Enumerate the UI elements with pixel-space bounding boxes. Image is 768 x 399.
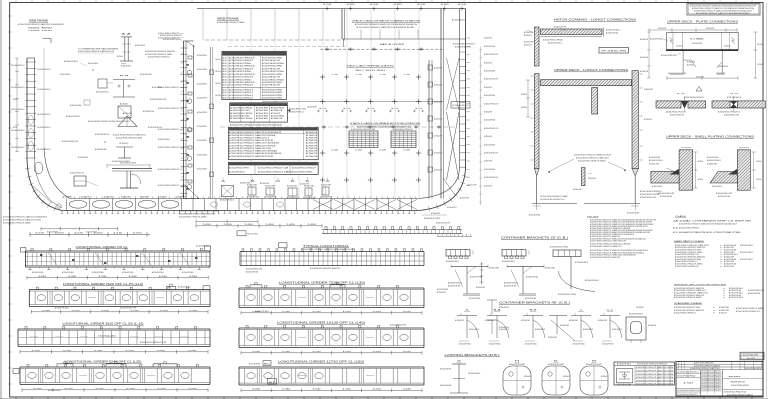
upper deck fig right column taper — [632, 169, 638, 176]
svg-text:A1 250x12 FB 300 L2 HP320x1: A1 250x12 FB 300 L2 HP320x1 — [230, 117, 253, 120]
svg-text:1.50: 1.50 — [331, 74, 338, 76]
svg-text:A1 25: A1 25 — [223, 96, 227, 99]
svg-text:A1 250x12 FB 300 L2 HP320x12 P: A1 250x12 FB 300 L2 HP320x12 PL 14 AH32 … — [229, 155, 274, 158]
svg-text:4.240: 4.240 — [159, 276, 167, 278]
svg-text:A1 250x12 FB 300 L2: A1 250x12 FB 300 L2 — [255, 310, 269, 313]
hold grid vertical lines upper — [202, 9, 204, 40]
title block outer — [676, 361, 763, 396]
svg-text:4.50: 4.50 — [370, 4, 378, 6]
double bottom diagonal bracing — [313, 200, 333, 210]
svg-text:MIDSHIP SECTION: MIDSHIP SECTION — [731, 382, 746, 384]
pedestal detail — [112, 168, 152, 170]
title block top rows — [676, 363, 763, 365]
svg-text:A1 250x12 FB 300 L2: A1 250x12 FB 300 L2 — [729, 296, 743, 299]
svg-text:4.240: 4.240 — [373, 389, 381, 391]
svg-text:A1 250x12 FB 300: A1 250x12 FB 300 — [554, 26, 566, 29]
svg-text:VIR 300-1: VIR 300-1 — [729, 376, 742, 378]
svg-text:4.240: 4.240 — [32, 350, 40, 352]
port inner frame edge — [43, 48, 45, 148]
svg-text:A1 250x12 FB 300 L2 HP320x12 P: A1 250x12 FB 300 L2 HP320x12 PL 14 AH32 … — [217, 21, 245, 24]
girder CL blobs — [40, 254, 42, 256]
starboard side frame ticks — [460, 51, 467, 53]
hatch coaming right wall — [440, 9, 442, 199]
stack load table 2 — [230, 103, 288, 122]
hatch top line right — [342, 38, 466, 40]
svg-text:A1 250x12 FB 300: A1 250x12 FB 300 — [627, 212, 639, 215]
svg-text:A1 250x12 FB 300 L2 HP3: A1 250x12 FB 300 L2 HP3 — [640, 196, 656, 199]
svg-text:MAIN PARTICULARS: MAIN PARTICULARS — [674, 240, 705, 243]
svg-text:A1 250x12 FB 300 L2: A1 250x12 FB 300 L2 — [707, 159, 721, 162]
svg-text:A1 250x12 FB 300 L2: A1 250x12 FB 300 L2 — [12, 64, 25, 67]
svg-text:A1 250x12 FB 300 L2 HP320: A1 250x12 FB 300 L2 HP320 — [292, 170, 313, 173]
svg-text:A1 250x12 FB 3: A1 250x12 FB 3 — [719, 306, 729, 309]
svg-text:A1 250x12 FB 300 L2 HP320x: A1 250x12 FB 300 L2 HP320x — [550, 246, 568, 249]
port web oval hole — [34, 162, 43, 174]
svg-text:A1 250x12 FB 300 L2: A1 250x12 FB 300 L2 — [649, 159, 663, 162]
svg-text:A1 250x12 FB 300 L2 HP: A1 250x12 FB 300 L2 HP — [262, 67, 281, 70]
girder 2620 PS end bracket — [202, 286, 204, 290]
stack load table 4 — [228, 162, 318, 174]
svg-text:A1 250x12 FB 300 L2 HP3: A1 250x12 FB 300 L2 HP3 — [658, 192, 674, 195]
svg-text:A1 250x12 FB 300 L2 HP3: A1 250x12 FB 300 L2 HP3 — [230, 109, 250, 112]
svg-text:A1 250x12 FB 300 L2 HP320x12 P: A1 250x12 FB 300 L2 HP320x12 PL 14 AH32 … — [576, 157, 609, 160]
starboard shell outboard labels — [467, 37, 471, 39]
sheet bottom scan edge strip — [0, 398, 768, 399]
bulkhead circles — [187, 70, 192, 75]
svg-text:4.240: 4.240 — [94, 350, 102, 352]
bulkhead bottom bracket — [184, 184, 200, 199]
detail figures under tables — [221, 186, 233, 197]
svg-text:A1 250x12 FB 300 L2 HP320x12 P: A1 250x12 FB 300 L2 HP320x12 PL 14 AH32 … — [179, 216, 207, 219]
svg-text:A1 250x12 FB 300: A1 250x12 FB 300 — [748, 292, 760, 295]
svg-text:4.240: 4.240 — [98, 276, 106, 278]
svg-text:4.240: 4.240 — [130, 310, 138, 312]
svg-text:A1 250x12 FB 300 L2 HP320x12 P: A1 250x12 FB 300 L2 HP320x12 PL — [229, 57, 256, 60]
svg-text:1.50: 1.50 — [355, 150, 362, 152]
upper deck dashed line left — [205, 39, 345, 41]
upper deck fig small marks — [531, 75, 534, 77]
svg-text:A1 250x12 FB 300 L2: A1 250x12 FB 300 L2 — [12, 86, 25, 89]
svg-text:UPPER DECK - SHELL PLATING C: UPPER DECK - SHELL PLATING CONNECTIONS — [666, 135, 754, 139]
cb40 extra figure — [549, 315, 567, 317]
svg-text:4.240: 4.240 — [158, 388, 166, 390]
svg-text:4.240: 4.240 — [189, 388, 197, 390]
svg-text:A1 250x12 FB 300 L2: A1 250x12 FB 300 L2 — [448, 282, 462, 285]
svg-text:A1 250x12 FB 300 L2 HP320x12 P: A1 250x12 FB 300 L2 HP320x12 PL 14 AH32 … — [736, 307, 764, 310]
lashing oval figures — [503, 366, 531, 395]
svg-text:A1 250x12 FB 300 L2 HP320x12 P: A1 250x12 FB 300 L2 HP320x12 PL — [674, 312, 696, 315]
container stack isometric 2 — [391, 131, 416, 148]
svg-text:A1 250x12 FB: A1 250x12 FB — [271, 109, 283, 112]
title block left cells — [676, 373, 701, 375]
container position crosses — [320, 76, 325, 78]
svg-text:A1 250x12 FB 300 L2 HP320x1: A1 250x12 FB 300 L2 HP320x1 — [229, 62, 252, 65]
weld detail 1 — [656, 101, 681, 108]
plate conn left dim — [648, 32, 650, 78]
svg-text:A1 250x12 FB 300 L2 HP320x12 P: A1 250x12 FB 300 L2 HP320x12 P — [229, 91, 254, 94]
svg-text:1.50: 1.50 — [403, 74, 410, 76]
svg-text:4-4: 4-4 — [391, 108, 399, 110]
svg-text:4.240: 4.240 — [403, 311, 411, 313]
double bottom lightening holes — [69, 200, 86, 208]
plate conn right dim — [754, 32, 756, 78]
upper deck fig base ticks — [533, 205, 541, 207]
svg-text:A1 250x12 FB 300 L2 HP: A1 250x12 FB 300 L2 HP — [453, 104, 470, 107]
svg-text:TYPICAL LONGITUDINAL: TYPICAL LONGITUDINAL — [303, 245, 350, 248]
port shell inner swirls — [28, 116, 33, 125]
svg-text:A1 250x12 FB 300 L2: A1 250x12 FB 300 L2 — [12, 108, 25, 111]
plate conn thick chord — [666, 49, 738, 51]
svg-text:A1 250x12 FB 300 L2 HP320x12 P: A1 250x12 FB 300 L2 HP320x12 PL 14 AH32 … — [637, 363, 667, 366]
svg-text:A1 250x12 FB 300 L2 HP320: A1 250x12 FB 300 L2 HP320 — [262, 65, 283, 68]
svg-text:4.240: 4.240 — [38, 276, 46, 278]
hatch cover dashed line — [320, 48, 443, 50]
svg-text:A1 250x12 FB: A1 250x12 FB — [306, 155, 318, 158]
svg-text:A1 250x12 FB 300 L2 HP320x12 P: A1 250x12 FB 300 L2 HP320x12 PL 14 AH3 — [116, 136, 142, 139]
svg-text:4.270: 4.270 — [55, 233, 64, 235]
title block middle cells — [701, 371, 723, 373]
svg-text:A1 250x12 FB 3: A1 250x12 FB 3 — [240, 182, 250, 185]
cb40 bracket figures — [457, 315, 477, 317]
svg-text:4.240: 4.240 — [282, 389, 290, 391]
svg-text:A1 250x12 FB: A1 250x12 FB — [306, 142, 318, 145]
svg-text:4.240: 4.240 — [403, 351, 411, 353]
port hatch side girder — [209, 47, 211, 199]
svg-text:4.240: 4.240 — [373, 311, 381, 313]
svg-text:4.240: 4.240 — [343, 389, 351, 391]
svg-text:LASHING BRACKETS (D.B.): LASHING BRACKETS (D.B.) — [445, 354, 500, 357]
svg-text:4.240: 4.240 — [42, 310, 50, 312]
svg-text:PL.2 PANEL: PL.2 PANEL — [690, 38, 704, 41]
svg-text:2.430: 2.430 — [266, 224, 274, 226]
svg-text:A1 250x12 FB: A1 250x12 FB — [306, 144, 318, 147]
svg-text:A1 250x12 FB 30: A1 250x12 FB 30 — [256, 115, 269, 118]
upper deck fig left column — [535, 74, 540, 169]
svg-text:A1 250x12 FB 300 L2 HP320x12 P: A1 250x12 FB 300 L2 HP320x12 PL 14 AH32 … — [357, 26, 415, 29]
svg-text:A1 250x12 FB 30: A1 250x12 FB 30 — [256, 112, 269, 115]
svg-text:A1 250x12 FB 3: A1 250x12 FB 3 — [649, 162, 659, 165]
svg-text:A1 25: A1 25 — [223, 89, 227, 92]
upper dimension row under bilge — [41, 228, 118, 230]
port shell frame ticks — [26, 61, 37, 63]
svg-text:A1 250x12 FB 300: A1 250x12 FB 300 — [448, 284, 460, 287]
strip label left — [237, 231, 246, 236]
longitudinal bulkhead — [183, 41, 185, 199]
dimension row under bilge left — [30, 234, 150, 236]
svg-text:HATCH COAMING - LONGIT CONNE: HATCH COAMING - LONGIT CONNECTIONS — [554, 18, 636, 22]
svg-text:A1 250x12: A1 250x12 — [120, 103, 128, 106]
svg-text:A1 250x12 FB 300 L2 HP320x12 P: A1 250x12 FB 300 L2 HP320x12 PL 14 AH32 … — [229, 152, 282, 155]
svg-text:A1 250x12 FB 300 L2 HP320x12 P: A1 250x12 FB 300 L2 HP320x12 PL 14 AH32 … — [357, 126, 411, 129]
svg-text:A1 250x12 FB 300 L2: A1 250x12 FB 300 L2 — [220, 199, 234, 202]
svg-text:A1 250x12 FB 300 L2 HP320: A1 250x12 FB 300 L2 HP320 — [262, 91, 283, 94]
svg-text:A1 250x12 FB 300 L2 HP320x12 P: A1 250x12 FB 300 L2 HP320x12 P — [229, 94, 254, 97]
svg-text:4.240: 4.240 — [157, 350, 165, 352]
svg-text:4.240: 4.240 — [68, 276, 76, 278]
svg-text:A1 250x12 FB 300 L2 HP320x12 P: A1 250x12 FB 300 L2 HP320x12 PL 14 AH32 … — [229, 142, 280, 145]
svg-text:A1 250x12 FB 300 L2 HP320x12 P: A1 250x12 FB 300 L2 HP320x12 PL 14 AH32 … — [145, 50, 175, 53]
svg-text:A1 250x12 FB: A1 250x12 FB — [306, 150, 318, 153]
svg-text:A1 25: A1 25 — [223, 94, 227, 97]
svg-text:A1 250x12 FB 300 L2 HP320x12 P: A1 250x12 FB 300 L2 HP320x12 PL 14 AH32 … — [310, 267, 340, 270]
svg-text:A1 250x12 FB 300 L2 HP320x12 P: A1 250x12 FB 300 L2 HP320x12 P — [229, 84, 254, 87]
upper deck fig baseline — [532, 203, 577, 205]
starboard dim string line — [480, 47, 482, 205]
svg-text:A1 250x12 FB 300 L2: A1 250x12 FB 300 L2 — [12, 146, 25, 149]
svg-text:A1 250x12 FB: A1 250x12 FB — [260, 182, 270, 185]
hold grid vertical lines — [250, 40, 252, 199]
svg-text:A1 250x12 FB 300 L2 HP320x12 P: A1 250x12 FB 300 L2 HP320x12 P — [229, 59, 254, 62]
weld detail 2 — [712, 101, 730, 108]
svg-text:A1 250x12 FB 300 L2 HP320x12 P: A1 250x12 FB 300 L2 HP320x12 PL 14 AH32 … — [229, 139, 274, 142]
table grid — [634, 365, 636, 385]
svg-text:2.430: 2.430 — [245, 224, 253, 226]
svg-text:A1 250x12 FB: A1 250x12 FB — [271, 117, 283, 120]
svg-text:A1 250x12 FB 300 L2 HP320x12 P: A1 250x12 FB 300 L2 HP320x12 PL 14 AH32 … — [590, 239, 626, 242]
svg-text:A1 250x12 FB 300 L2 HP320x12 P: A1 250x12 FB 300 L2 HP320x12 PL 14 AH32 … — [674, 296, 702, 299]
svg-text:A1 250x12 FB 300 L2 HP320x12 P: A1 250x12 FB 300 L2 HP320x12 PL 14 AH32 … — [578, 160, 606, 163]
hold horizontal dashed line mid — [220, 126, 455, 128]
plate conn deck band — [667, 33, 739, 50]
girder CL top sockets — [31, 249, 33, 251]
svg-text:A1 250x12 FB 300 L2 HP320x12 P: A1 250x12 FB 300 L2 HP320x12 PL — [148, 56, 170, 59]
svg-text:A1 250x12 FB 300 L2 HP3: A1 250x12 FB 300 L2 HP3 — [62, 140, 78, 143]
bulkhead frame ticks — [181, 47, 188, 49]
svg-text:A1 250x12 FB 300 L2: A1 250x12 FB 300 L2 — [446, 260, 459, 263]
svg-text:4.240: 4.240 — [101, 310, 109, 312]
svg-text:A1 250x12 FB 300 L2 HP320: A1 250x12 FB 300 L2 HP320 — [262, 89, 283, 92]
lightening holes table — [614, 362, 674, 385]
svg-text:A1 250x12 FB 300 L2 HP320x12 P: A1 250x12 FB 300 L2 HP320x12 PL 14 AH32 … — [229, 136, 269, 139]
svg-text:A1 250x12 FB 300 L2 HP3: A1 250x12 FB 300 L2 HP3 — [716, 192, 732, 195]
svg-text:A1 250x12 FB 30: A1 250x12 FB 30 — [256, 117, 269, 120]
svg-text:LONGITUDINAL GIRDER 2620 OFF C: LONGITUDINAL GIRDER 2620 OFF CL PS (L10) — [63, 283, 143, 286]
svg-text:A1 250x12 FB 300 L2 HP320x12 P: A1 250x12 FB 300 L2 HP320x12 P — [158, 146, 180, 149]
svg-text:STACK LOADS ON HATCH COAMING (: STACK LOADS ON HATCH COAMING (STATION) — [352, 20, 420, 23]
svg-text:4.50: 4.50 — [347, 4, 355, 6]
bottom shell longitudinal stubs — [61, 211, 63, 214]
svg-text:A1 250x12 FB 300 L2 HP320x1: A1 250x12 FB 300 L2 HP320x1 — [262, 70, 285, 73]
svg-text:4.240: 4.240 — [282, 311, 290, 313]
svg-text:A1 250x12 FB 300 L2 HP3: A1 250x12 FB 300 L2 HP3 — [390, 323, 406, 326]
svg-text:A1 250x12 FB 300 L2 HP320x12: A1 250x12 FB 300 L2 HP320x12 — [679, 227, 699, 230]
svg-text:A1 250x12 FB 300 L2: A1 250x12 FB 300 L2 — [229, 170, 246, 173]
svg-text:A1 250x12 FB 300 L2 HP320x1: A1 250x12 FB 300 L2 HP320x1 — [230, 107, 253, 110]
svg-text:A1 250x12 FB 300 L2 HP320x12 P: A1 250x12 FB 300 L2 HP320x12 P — [158, 168, 180, 171]
svg-text:30 / 30 0 200: 30 / 30 0 200 — [355, 70, 385, 72]
svg-text:A1 250x12 FB 300 L2 HP320x12 P: A1 250x12 FB 300 L2 HP320x12 PL 14 AH32 — [145, 53, 172, 56]
svg-text:A1 250x12 FB 300 L2 HP320x12 P: A1 250x12 FB 300 L2 HP320x12 PL 14 AH32 … — [355, 23, 417, 26]
svg-text:A1 250x12 FB 300 L2 HP320x12 P: A1 250x12 FB 300 L2 HP320x12 PL — [453, 43, 475, 46]
svg-text:A1 250x12 FB 300 L2 HP320x12: A1 250x12 FB 300 L2 HP320x12 — [543, 39, 563, 42]
svg-text:A1 250x12 FB 300 L2: A1 250x12 FB 300 L2 — [48, 389, 61, 392]
svg-text:A1 250x12 FB: A1 250x12 FB — [308, 106, 318, 109]
svg-text:4.270: 4.270 — [94, 233, 103, 235]
svg-text:A1 250x12 FB 300 L2: A1 250x12 FB 300 L2 — [585, 279, 599, 282]
section C-C detail — [118, 106, 131, 118]
port curve radial ticks — [25, 167, 30, 170]
svg-text:A1 250x12 FB 300 L2 HP3: A1 250x12 FB 300 L2 HP3 — [289, 108, 306, 111]
upper deck fig mid post — [592, 88, 598, 115]
svg-text:A1 250x12 FB 300 L2 HP320x1: A1 250x12 FB 300 L2 HP320x1 — [229, 78, 252, 81]
svg-text:A1 250x12 FB 300 L2 HP320x12 P: A1 250x12 FB 300 L2 HP320x12 PL — [88, 120, 110, 123]
upper deck fig right column — [632, 71, 638, 169]
hatch coaming hanger ticks — [360, 30, 362, 40]
svg-text:A1 250x12 FB 300: A1 250x12 FB 300 — [529, 214, 540, 217]
sheet right edge line — [766, 3, 768, 397]
small tick pair row — [317, 110, 320, 112]
svg-text:A1 250x12 FB 300 L2 HP320x12 P: A1 250x12 FB 300 L2 HP320x12 PL — [229, 81, 256, 84]
small box detail left — [74, 176, 86, 186]
svg-text:4.240: 4.240 — [189, 310, 197, 312]
svg-text:A1 250x12 FB 300 L2: A1 250x12 FB 300 L2 — [629, 313, 643, 316]
svg-text:A1 250x12 FB 300 L2 HP320: A1 250x12 FB 300 L2 HP320 — [262, 57, 283, 60]
svg-text:A1 25: A1 25 — [223, 59, 227, 62]
svg-text:4-4: 4-4 — [415, 108, 423, 110]
svg-text:A1 250x12 FB 300 L2 HP320x12 P: A1 250x12 FB 300 L2 HP320x12 PL 14 AH32 … — [590, 245, 622, 248]
svg-text:A1 250x12 FB 300 L2 HP320: A1 250x12 FB 300 L2 HP320 — [262, 96, 283, 99]
svg-text:A1 250x12 FB 300 L2: A1 250x12 FB 300 L2 — [606, 29, 620, 32]
svg-text:4.240: 4.240 — [96, 388, 104, 390]
starboard side cross bracing — [447, 58, 460, 110]
svg-text:A1 250x12 FB 300 L2 HP320x12 P: A1 250x12 FB 300 L2 HP320x12 PL — [229, 65, 256, 68]
hatch coaming fig beam — [541, 29, 603, 35]
svg-text:A1 250x12 FB 30: A1 250x12 FB 30 — [256, 107, 269, 110]
svg-text:A1 250x12 F: A1 250x12 F — [719, 312, 727, 315]
svg-text:4.270: 4.270 — [113, 233, 122, 235]
svg-text:A1 250x12 FB 300: A1 250x12 FB 300 — [469, 297, 480, 300]
starboard drain hole label — [451, 102, 470, 108]
svg-text:A1 250x12 FB: A1 250x12 FB — [306, 136, 318, 139]
svg-text:A1 250x12 FB 300 L2 HP320x12 P: A1 250x12 FB 300 L2 HP320x12 PL 14 — [736, 310, 760, 313]
svg-text:A1 250x12 FB 300: A1 250x12 FB 300 — [271, 107, 285, 110]
double bottom small holes mid — [211, 202, 218, 207]
svg-text:A1 250x12 FB 300 L2 HP: A1 250x12 FB 300 L2 HP — [661, 54, 677, 57]
hatch coaming left wall — [341, 9, 343, 39]
svg-text:A1 250: A1 250 — [673, 227, 678, 230]
svg-text:2.430: 2.430 — [203, 224, 211, 226]
cb40 socket box detail — [626, 317, 646, 340]
svg-text:A1 250x12 FB: A1 250x12 FB — [306, 134, 318, 137]
svg-text:A1 250x12 FB: A1 250x12 FB — [300, 183, 310, 186]
svg-text:A1 250x12 FB 300 L2: A1 250x12 FB 300 L2 — [502, 260, 515, 263]
svg-text:A1 250x12 FB 300 L2 HP320x12 P: A1 250x12 FB 300 L2 HP320x12 PL 14 AH32 … — [3, 222, 31, 225]
bulkhead stiffener blobs — [188, 56, 192, 59]
svg-text:A1 250x12 FB 300 L2 HP320: A1 250x12 FB 300 L2 HP320 — [229, 166, 250, 169]
svg-text:LONGITUDINAL GIRDER 2620 OFF C: LONGITUDINAL GIRDER 2620 OFF CL SS (L-10… — [63, 322, 144, 325]
svg-text:A1 250x12 FB 300 L2 HP320x12 P: A1 250x12 FB 300 L2 HP320x12 PL 14 AH32 … — [674, 309, 704, 312]
svg-text:4.240: 4.240 — [126, 350, 134, 352]
table left sketch box — [616, 369, 632, 383]
svg-text:A1 25: A1 25 — [223, 76, 227, 79]
svg-text:100A1 CONTAINER SHIP CS SHIP: 100A1 CONTAINER SHIP CS SHIP RE — [679, 220, 753, 223]
svg-text:A1 250x12 FB 300 L2 HP320x12 P: A1 250x12 FB 300 L2 HP320x12 PL 14 — [675, 265, 699, 268]
svg-text:1.50: 1.50 — [331, 150, 338, 152]
svg-text:LONGITUDINAL GIRDER ON CL: LONGITUDINAL GIRDER ON CL — [76, 246, 129, 249]
svg-text:A1 250x12 FB 300 L2 HP3: A1 250x12 FB 300 L2 HP3 — [230, 115, 250, 118]
girder CL T-feet row — [29, 267, 31, 270]
svg-text:A1 250x12 FB 300 L2 HP320x12 P: A1 250x12 FB 300 L2 HP320x12 PL 14 AH32 … — [229, 144, 276, 147]
svg-text:A1 250x12 FB 300 L2 HP320x12 P: A1 250x12 FB 300 L2 HP320x12 P — [229, 96, 254, 99]
svg-text:A1 250x12 FB 300 L2 HP320x1: A1 250x12 FB 300 L2 HP320x1 — [262, 62, 285, 65]
svg-text:4.50: 4.50 — [323, 4, 331, 6]
upper deck fig left column taper — [535, 169, 540, 176]
svg-text:4.240: 4.240 — [282, 351, 290, 353]
svg-text:A1 250x12 FB 300 L2 HP320: A1 250x12 FB 300 L2 HP320 — [262, 81, 283, 84]
svg-text:UPPER DECK - PLATE CONNECTIO: UPPER DECK - PLATE CONNECTIONS — [667, 20, 738, 24]
svg-text:4.50: 4.50 — [458, 4, 466, 6]
svg-text:UPPER DECK - LONGIT CONNECTI: UPPER DECK - LONGIT CONNECTIONS — [554, 68, 628, 72]
svg-text:A1 250x12 FB 300 L2: A1 250x12 FB 300 L2 — [575, 261, 588, 264]
svg-text:A1 250x12 FB 300 L2 HP3: A1 250x12 FB 300 L2 HP3 — [246, 268, 262, 271]
svg-text:1:50: 1:50 — [683, 383, 693, 385]
svg-text:A1 25: A1 25 — [223, 91, 227, 94]
bulkhead top bracket — [186, 41, 195, 47]
svg-text:A1 250x12 FB 300 L2 HP3: A1 250x12 FB 300 L2 HP3 — [150, 98, 166, 101]
svg-text:A1 250x12 FB 300: A1 250x12 FB 300 — [246, 271, 258, 274]
svg-text:A1 25: A1 25 — [223, 84, 227, 87]
svg-text:A1 250x12 F: A1 250x12 F — [524, 44, 532, 47]
svg-text:A1 250x12 F: A1 250x12 F — [123, 112, 133, 115]
svg-text:A1 250x12 FB 300 L2: A1 250x12 FB 300 L2 — [12, 129, 25, 132]
svg-text:A1 250x12 FB 30: A1 250x12 FB 30 — [256, 109, 269, 112]
svg-text:A1 250x12 FB 300: A1 250x12 FB 300 — [718, 195, 730, 198]
svg-text:A1 250x12 FB 300 L: A1 250x12 FB 300 L — [452, 19, 465, 22]
svg-text:A1 250x12 F: A1 250x12 F — [271, 112, 281, 115]
svg-text:A1 250x12 FB 300 L2: A1 250x12 FB 300 L2 — [64, 60, 78, 63]
svg-text:4.240: 4.240 — [63, 350, 71, 352]
svg-text:A1 250x12 FB 300 L2: A1 250x12 FB 300 L2 — [55, 306, 69, 309]
svg-text:4-4: 4-4 — [319, 108, 327, 110]
hatch side girder brackets — [428, 65, 433, 70]
shell plating fig 1 horizontal bar — [651, 172, 679, 184]
svg-text:4.240: 4.240 — [343, 351, 351, 353]
small triangle mark — [696, 87, 702, 92]
cb20 fig 3 — [553, 250, 581, 257]
svg-text:4.270: 4.270 — [133, 233, 142, 235]
svg-text:4.240: 4.240 — [312, 351, 320, 353]
plate conn hanging webs — [682, 50, 684, 73]
svg-text:A1 250x12 FB: A1 250x12 FB — [306, 152, 318, 155]
svg-text:A1 250x12 FB 300: A1 250x12 FB 300 — [525, 297, 536, 300]
svg-text:A1 250x12 F: A1 250x12 F — [524, 34, 532, 37]
port bilge inner curve / tank top — [35, 158, 63, 208]
svg-text:A1 250x12 FB 300: A1 250x12 FB 300 — [660, 195, 672, 198]
svg-text:LONGITUDINAL GIRDER 5240 OFF C: LONGITUDINAL GIRDER 5240 OFF CL (L20) — [65, 360, 142, 363]
side box detail — [98, 79, 107, 88]
svg-text:1.50: 1.50 — [403, 150, 410, 152]
svg-text:A1 250x12 FB 300 L2 HP320x12 P: A1 250x12 FB 300 L2 HP320x12 PL 14 AH — [258, 166, 288, 169]
svg-text:A1 250x12 FB 300 L2 HP320x12 P: A1 250x12 FB 300 L2 HP320x12 PL 14 AH32 … — [113, 134, 146, 137]
cb20 partial fig left margin — [481, 262, 483, 284]
shell plating fig 1 vertical bar — [679, 150, 693, 190]
svg-text:A1 250x12 FB 300 L2 HP320x12 P: A1 250x12 FB 300 L2 HP320x12 PL 14 A — [140, 341, 167, 344]
svg-text:A1 250x12 FB 300 L2 HP320x12 P: A1 250x12 FB 300 L2 HP320x12 PL 14 AH32 … — [179, 210, 220, 213]
girder CL dim line — [27, 277, 208, 279]
svg-text:1.50: 1.50 — [379, 74, 386, 76]
svg-text:A1 250x12 FB 300 L2 HP320x: A1 250x12 FB 300 L2 HP320x — [558, 293, 576, 296]
top right stamp box — [687, 4, 760, 16]
svg-text:4.50: 4.50 — [441, 4, 449, 6]
svg-text:HATCH COVER: HATCH COVER — [380, 43, 405, 46]
title block main dividers — [700, 370, 702, 396]
shell plating fig 1 weld — [670, 169, 680, 175]
svg-text:A1 250x12 FB 300 L2 HP320x12 P: A1 250x12 FB 300 L2 HP320x12 PL 14 AH32 … — [229, 134, 276, 137]
port bilge outer curve — [27, 158, 419, 211]
svg-text:A1 250x12 FB 300: A1 250x12 FB 300 — [649, 156, 660, 159]
svg-text:A1 250x12 FB 300 L2 HP: A1 250x12 FB 300 L2 HP — [262, 76, 281, 79]
svg-text:A1 250x12 FB 300 L2 HP320x12 P: A1 250x12 FB 300 L2 HP320x12 PL 14 AH32 … — [230, 124, 283, 127]
